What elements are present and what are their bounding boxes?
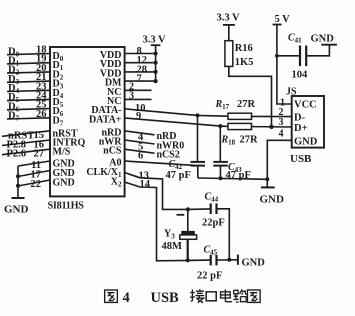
wire JS GND down	[267, 140, 291, 187]
svg-text:nCS: nCS	[103, 146, 122, 157]
svg-text:104: 104	[292, 70, 309, 81]
capacitor C43 plates	[213, 161, 228, 163]
wire R17 to JS D-	[252, 115, 292, 117]
wire X2 pin14 to crystal bottom	[125, 182, 188, 261]
svg-text:22pF: 22pF	[202, 217, 225, 228]
junction crystal bottom node	[186, 258, 190, 262]
wire nRD stub	[125, 131, 155, 135]
svg-text:USB: USB	[290, 153, 312, 165]
wire R16 to D+ net	[229, 66, 272, 126]
wire crystal top	[187, 209, 189, 231]
wire capacitor return to JS ground	[198, 178, 267, 179]
wire D6 to IC pin 25	[7, 109, 50, 110]
wire D2 to IC pin 20	[7, 72, 50, 73]
wire 5V to JS VCC	[277, 25, 292, 105]
junction DATA+ to C43	[218, 124, 222, 128]
svg-text:3.3 V: 3.3 V	[217, 13, 241, 24]
wire 5V node to C41	[277, 55, 299, 57]
svg-text:DATA+: DATA+	[89, 114, 122, 125]
wire crystal bottom node to C45	[188, 259, 210, 261]
svg-text:5 V: 5 V	[275, 14, 291, 25]
svg-text:6: 6	[138, 151, 143, 162]
wire nRST to IC pin 15	[2, 131, 50, 137]
wire D0 to IC pin 18	[7, 54, 50, 55]
resistor R18 body	[228, 123, 252, 129]
title hanzi 路	[233, 289, 247, 302]
svg-text:GND: GND	[311, 33, 335, 44]
junction GND pin22	[16, 184, 20, 188]
wire NC stub	[125, 98, 152, 100]
wire A0 stub	[125, 161, 194, 165]
wire nCS2 stub	[125, 149, 155, 153]
svg-text:M/S: M/S	[53, 147, 71, 158]
svg-text:R16: R16	[235, 43, 253, 54]
junction on 3.3V rail	[154, 61, 158, 65]
svg-text:GND: GND	[260, 193, 285, 205]
svg-text:D-: D-	[294, 113, 306, 124]
svg-text:22 pF: 22 pF	[197, 271, 222, 282]
junction on 3.3V rail	[154, 51, 158, 55]
svg-text:VCC: VCC	[294, 100, 317, 111]
svg-text:27R: 27R	[240, 134, 259, 145]
svg-text:JS: JS	[286, 86, 297, 97]
power symbol 5V bar	[273, 24, 282, 26]
svg-text:GND: GND	[53, 178, 75, 189]
wire DATA+ pin9 to R18	[125, 118, 229, 126]
wire 3.3V to R16	[228, 25, 230, 41]
junction C44 return on bottom wire	[227, 258, 231, 262]
svg-text:9: 9	[136, 111, 141, 122]
wire P2.6 to IC pin 27	[2, 149, 50, 155]
wire crystal bottom	[187, 239, 189, 260]
wire D7 to IC pin 26	[7, 118, 50, 119]
svg-text:3.3 V: 3.3 V	[143, 35, 167, 46]
svg-text:SI811HS: SI811HS	[48, 201, 85, 212]
svg-text:USB: USB	[151, 290, 180, 306]
ground symbol right of C45	[237, 255, 239, 265]
wire CLK/X1 pin13 to crystal top	[125, 173, 188, 210]
junction C43 on return wire	[219, 176, 223, 180]
svg-text:7: 7	[137, 74, 142, 85]
wire C42 to return	[197, 166, 199, 178]
wire VDD/DM pin row 3 to 3.3V rail	[125, 80, 156, 82]
ground symbol bottom-left	[12, 197, 25, 199]
title hanzi 图 (last)	[247, 290, 260, 302]
capacitor C45 plates	[210, 255, 212, 266]
wire C45 to ground	[217, 259, 238, 261]
wire D5 to IC pin 24	[7, 99, 50, 100]
svg-text:D+: D+	[294, 123, 308, 134]
svg-text:4: 4	[279, 129, 284, 140]
stray mark near crystal top node	[177, 214, 185, 216]
wire DATA- pin10 to R17	[125, 109, 229, 116]
ground symbol under JS bar	[261, 186, 275, 188]
capacitor C44 plates	[210, 203, 212, 214]
title hanzi 电	[221, 289, 233, 301]
power symbol 3.3V bar	[151, 44, 161, 46]
wire DATA+ junction down to C43	[219, 126, 221, 161]
svg-text:GND: GND	[4, 204, 29, 216]
power rail 3.3V for IC	[155, 45, 157, 81]
title hanzi 接	[190, 289, 204, 303]
svg-text:GND: GND	[242, 257, 266, 268]
wire crystal top node to C44	[188, 208, 210, 211]
wire C44 to bottom node	[217, 209, 229, 260]
capacitor C42 plates	[191, 161, 206, 163]
svg-text:3: 3	[279, 117, 284, 128]
svg-text:P2.6: P2.6	[7, 149, 27, 160]
wire nWR0 stub	[125, 140, 155, 144]
wire GND pin 11	[18, 161, 50, 166]
resistor R16 body	[225, 41, 233, 67]
wire C43 to return	[219, 166, 221, 179]
svg-text:27R: 27R	[237, 99, 256, 110]
wire D1 to IC pin 19	[7, 63, 50, 64]
junction on 3.3V rail	[154, 79, 158, 83]
wire R18 to JS D+	[252, 126, 292, 128]
wire DATA- junction down to C42	[197, 115, 199, 161]
junction crystal top node	[186, 207, 190, 211]
capacitor C41 plates	[299, 46, 301, 67]
wire ground bus left	[17, 166, 19, 198]
IC U1 SI811HS body	[50, 47, 125, 196]
title hanzi 图 (first)	[105, 290, 118, 302]
svg-text:47 pF: 47 pF	[166, 170, 191, 181]
junction DATA- to C42	[196, 113, 200, 117]
wire P2.8 to IC pin 16	[2, 140, 50, 146]
wire GND pin 22	[18, 180, 50, 186]
junction R16 on D+ line	[269, 125, 273, 129]
connector JS body	[292, 96, 324, 148]
wire D3 to IC pin 21	[7, 81, 50, 82]
junction 5V to C41	[275, 54, 279, 58]
crystal Y3 body	[181, 231, 195, 235]
resistor R17 body	[228, 113, 252, 119]
svg-text:48M: 48M	[162, 241, 183, 252]
svg-text:4: 4	[123, 290, 130, 306]
wire VDD/DM pin row 2 to 3.3V rail	[125, 71, 156, 73]
power symbol 3.3V bar (R16)	[223, 24, 235, 26]
svg-text:22: 22	[31, 179, 42, 190]
wire VDD/DM pin row 0 to 3.3V rail	[125, 53, 156, 55]
svg-text:3: 3	[129, 91, 134, 102]
wire VDD/DM pin row 1 to 3.3V rail	[125, 62, 156, 64]
wire NC stub	[125, 89, 152, 91]
junction on 3.3V rail	[154, 70, 158, 74]
svg-text:26: 26	[36, 109, 47, 120]
ground symbol top-right bar	[321, 44, 337, 46]
svg-text:GND: GND	[294, 137, 318, 148]
junction GND pin17	[16, 174, 20, 178]
title hanzi 口	[206, 292, 216, 301]
wire C41 to ground	[307, 45, 330, 56]
svg-text:14: 14	[140, 179, 151, 190]
junction JS-GND with cap return wire	[265, 177, 269, 181]
svg-text:1K5: 1K5	[235, 57, 254, 68]
wire D4 to IC pin 23	[7, 90, 50, 91]
wire GND pin 17	[18, 171, 50, 177]
svg-text:27: 27	[34, 149, 45, 160]
